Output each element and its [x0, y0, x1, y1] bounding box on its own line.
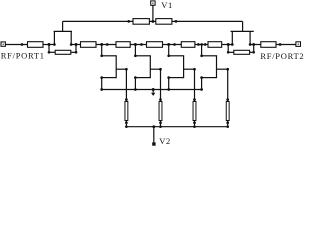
junction dot rail R13 [159, 125, 162, 128]
junction dot rail corner left [100, 88, 103, 91]
junction dot below R14 [193, 121, 196, 124]
wire V1 riser [152, 5, 154, 22]
wire tap2 drop [134, 45, 136, 56]
wire node B2 to R9 [250, 44, 261, 46]
resistor R4 series [116, 42, 130, 48]
junction dot rail R15 [226, 125, 229, 128]
junction dot wire join [106, 43, 109, 46]
wire R4 to R5 [130, 44, 146, 46]
junction dot above R12 [125, 98, 128, 101]
resistor R9 series output [261, 42, 276, 48]
resistor R6 series [181, 42, 195, 48]
junction dot wire join [173, 43, 176, 46]
wire R13 to bottom rail [160, 121, 162, 127]
wire R12 to bottom rail [125, 121, 127, 127]
node A2 dot [227, 43, 230, 46]
wire top gate rail right [172, 20, 243, 22]
junction dot rail tap2 [134, 88, 137, 91]
junction dot Q4 drain [134, 54, 137, 57]
junction dot above R15 [226, 98, 229, 101]
junction dot Q6 drain [200, 54, 203, 57]
wire Q4 source drop [134, 78, 136, 90]
wire top rail under V1 [149, 20, 155, 22]
junction dot Q3 gate [125, 68, 128, 71]
resistor R10 gate bias left [133, 19, 149, 25]
wire ground rail [102, 89, 202, 91]
junction dot wire join left of tap4 [197, 43, 200, 46]
wire tap3 drop [168, 45, 170, 56]
junction dot top rail right [175, 20, 178, 23]
resistor R12 shunt bias 1 [125, 102, 128, 121]
resistor R3 series [81, 42, 97, 48]
junction dot wire join [140, 43, 143, 46]
junction dot rail corner right [200, 88, 203, 91]
resistor R5 series center [147, 42, 163, 48]
junction dot tap4 [200, 43, 203, 46]
junction dot tap3 [167, 43, 170, 46]
wire node B to R3 [71, 44, 80, 46]
resistor R8 parallel with Q2 [227, 45, 255, 55]
junction dot wire join right of tap4 [204, 43, 207, 46]
node A dot [48, 43, 51, 46]
junction dot wire join left [21, 43, 24, 46]
junction dot Q4 gate [159, 68, 162, 71]
junction dot below R13 [159, 121, 162, 124]
transistor Q2 series FET right [231, 21, 254, 45]
ground symbol [151, 88, 155, 96]
wire R5 to R6 [163, 44, 182, 46]
junction dot V1 node [151, 20, 154, 23]
node B2 dot [252, 43, 255, 46]
node B dot [75, 43, 78, 46]
transistor Q3 shunt FET 1 [100, 55, 126, 79]
svg-text:V2: V2 [159, 136, 171, 146]
wire Q3 source drop [101, 78, 103, 90]
wire R15 to bottom rail [227, 121, 229, 127]
wire tap4 drop [201, 45, 203, 56]
junction dot tap1 [100, 43, 103, 46]
svg-text:V1: V1 [161, 0, 173, 10]
wire R1 to node A [43, 44, 54, 46]
svg-text:RF/PORT2: RF/PORT2 [260, 51, 304, 61]
resistor R2 parallel with Q1 [48, 45, 78, 55]
svg-text:RF/PORT1: RF/PORT1 [1, 51, 45, 61]
junction dot tap2 [134, 43, 137, 46]
resistor R14 shunt bias 3 [193, 102, 196, 121]
wire Q6 source drop [201, 78, 203, 90]
junction dot below R12 [125, 121, 128, 124]
junction dot above R14 [193, 98, 196, 101]
port V2 terminal [152, 142, 155, 145]
port V1 terminal [151, 1, 155, 5]
junction dot Q3 drain [100, 54, 103, 57]
wire Q6 gate drop [227, 69, 229, 101]
resistor R13 shunt bias 2 [159, 102, 162, 121]
resistor R7 series [208, 42, 222, 48]
transistor Q5 shunt FET 3 [167, 55, 194, 79]
wire Q3 gate drop [125, 69, 127, 101]
wire Q4 gate drop [160, 69, 162, 101]
wire R6 to R7 [195, 44, 208, 46]
resistor R11 gate bias right [156, 19, 172, 25]
wire top gate rail left [63, 20, 133, 22]
port P2 terminal [296, 42, 301, 47]
wire tap1 drop [101, 45, 103, 56]
junction dot below R15 [226, 121, 229, 124]
junction dot Q5 drain [167, 54, 170, 57]
junction dot Q6 gate [226, 68, 229, 71]
port P1 terminal [1, 42, 5, 46]
resistor R1 series input [28, 42, 44, 48]
wire main line port1 to R1 [5, 44, 27, 46]
wire R7 to node A2 [222, 44, 233, 46]
junction dot rail tap3 [167, 88, 170, 91]
wire Q5 gate drop [194, 69, 196, 101]
junction dot V2 node [152, 125, 155, 128]
wire bottom rail V2 [126, 126, 227, 128]
junction dot rail R14 [193, 125, 196, 128]
wire V2 stub [153, 127, 155, 143]
junction dot top rail left [127, 20, 130, 23]
wire Q5 source drop [168, 78, 170, 90]
resistor R15 shunt bias 4 [226, 102, 229, 121]
transistor Q1 series FET left [53, 21, 72, 45]
junction dot rail R12 [125, 125, 128, 128]
transistor Q6 shunt FET 4 [200, 55, 227, 79]
junction dot wire join right [279, 43, 282, 46]
junction dot Q5 gate [193, 68, 196, 71]
wire R3 to R4 [96, 44, 116, 46]
junction dot above R13 [159, 98, 162, 101]
transistor Q4 shunt FET 2 [134, 55, 160, 79]
wire R14 to bottom rail [194, 121, 196, 127]
wire R9 to port2 [276, 44, 296, 46]
